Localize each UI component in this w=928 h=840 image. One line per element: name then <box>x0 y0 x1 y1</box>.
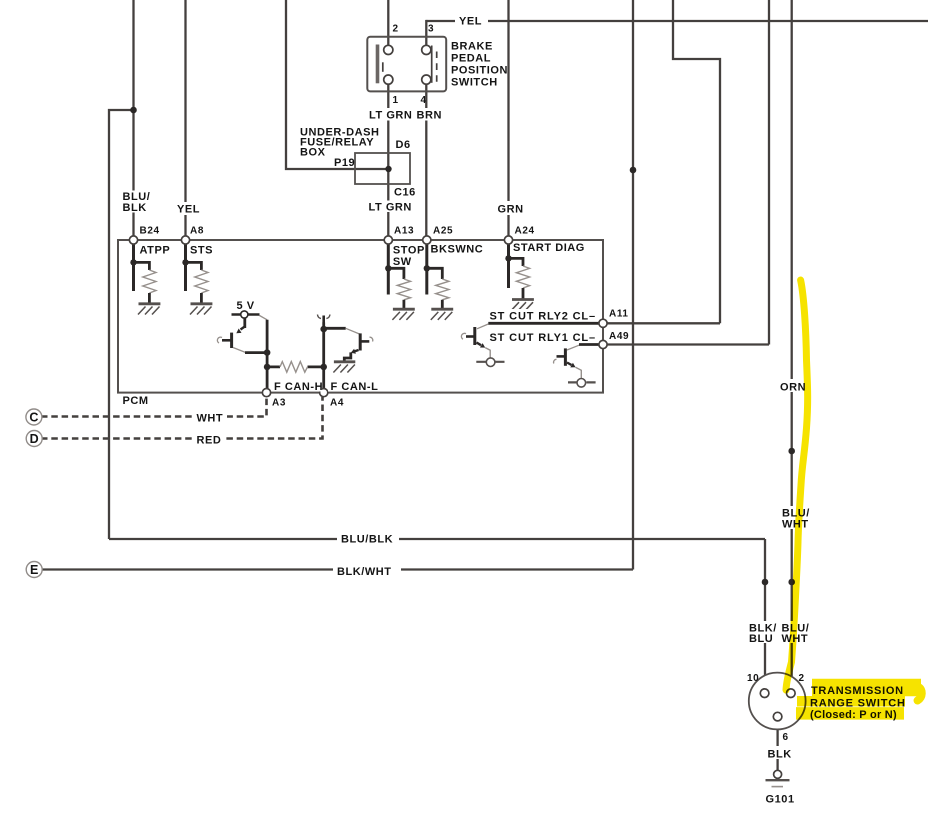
highlighter mark over ORN/BLU-WHT wire <box>786 280 808 690</box>
svg-text:BLU: BLU <box>749 633 773 645</box>
connector D dashed wire RED <box>41 397 323 439</box>
svg-text:5 V: 5 V <box>237 300 255 312</box>
svg-text:LT GRN: LT GRN <box>369 110 412 122</box>
splice on ORN wire <box>788 448 795 455</box>
svg-text:B24: B24 <box>140 226 160 237</box>
highlighter mark over TRANSMISSION RANGE SWITCH label <box>796 687 922 713</box>
PCM terminal A4 <box>320 389 328 397</box>
resistor STOP SW <box>385 243 410 309</box>
connector C <box>26 409 42 425</box>
svg-text:A4: A4 <box>330 398 344 409</box>
svg-text:ORN: ORN <box>780 382 806 394</box>
svg-text:ST CUT RLY1 CL–: ST CUT RLY1 CL– <box>490 332 596 344</box>
transistor ST CUT RLY2 <box>461 324 490 359</box>
resistor BKSWNC <box>424 243 449 309</box>
label RED <box>193 432 225 447</box>
svg-text:D: D <box>30 432 39 446</box>
label BLU/BLK bus <box>337 530 399 546</box>
wire BRN pin 4 to A25 <box>425 84 427 236</box>
wire BLU/BLK horizontal bus <box>109 538 765 540</box>
svg-text:START DIAG: START DIAG <box>513 242 585 254</box>
svg-text:2: 2 <box>799 673 805 684</box>
resistor START DIAG <box>505 243 529 300</box>
resistor CAN termination <box>267 362 324 373</box>
PCM terminal A8 <box>181 236 189 244</box>
svg-text:ATPP: ATPP <box>140 245 171 257</box>
wire GRN vertical to A24 <box>507 0 509 236</box>
wire F CAN-H vertical <box>264 320 271 393</box>
transistor ST CUT RLY1 <box>554 345 582 379</box>
svg-text:A3: A3 <box>272 398 286 409</box>
wire ST CUT RLY2 CL to A11 <box>488 322 603 325</box>
svg-text:1: 1 <box>393 95 399 106</box>
svg-text:BLK: BLK <box>123 202 147 214</box>
ground (circle type) for RLY1 <box>568 379 596 388</box>
svg-text:F CAN-L: F CAN-L <box>331 381 379 393</box>
ground for ATPP <box>138 304 160 315</box>
node on BLK/WHT wire <box>630 167 637 174</box>
wire A11 horizontal <box>607 322 720 324</box>
svg-text:SW: SW <box>393 256 412 268</box>
switch contact pin3-pin4 <box>431 46 433 83</box>
label ST CUT RLY1 CL <box>487 331 599 344</box>
wire ORN / BLU WHT to pin 2 <box>791 0 793 688</box>
svg-text:C16: C16 <box>394 187 416 199</box>
svg-text:A13: A13 <box>394 226 414 237</box>
connector D <box>26 431 42 447</box>
wire YEL vertical to A8 <box>184 0 186 236</box>
CAN-L top terminal symbol <box>317 315 329 324</box>
svg-text:PCM: PCM <box>123 395 149 407</box>
svg-text:LT GRN: LT GRN <box>369 202 412 214</box>
splice on BLK/BLU wire <box>762 579 769 586</box>
switch plunger bar <box>376 45 380 84</box>
ground for STOP SW <box>392 309 414 320</box>
wire A49 horizontal <box>607 343 769 345</box>
label WHT <box>193 410 227 425</box>
label F CAN-H <box>272 380 323 393</box>
pin 1 circle <box>384 75 393 84</box>
label ORN <box>777 379 810 394</box>
ground for STS <box>190 304 212 315</box>
ground (circle type) for RLY2 <box>476 358 504 367</box>
svg-text:3: 3 <box>428 24 434 35</box>
svg-text:PEDAL: PEDAL <box>451 53 491 65</box>
PCM terminal A49 <box>599 340 607 348</box>
label YEL top (on wire) <box>455 13 488 28</box>
PCM terminal A11 <box>599 319 607 327</box>
svg-text:BRAKE: BRAKE <box>451 41 493 53</box>
PCM terminal A24 <box>504 236 512 244</box>
label ST CUT RLY2 CL <box>487 309 599 322</box>
svg-text:BRN: BRN <box>417 110 442 122</box>
label BLK/BLU <box>746 621 777 645</box>
label GRN wire <box>494 201 527 216</box>
svg-text:GRN: GRN <box>498 204 524 216</box>
label F CAN-L <box>328 380 378 393</box>
svg-text:BLK: BLK <box>768 749 792 761</box>
wire BLK/WHT vertical from top <box>632 0 634 570</box>
svg-text:E: E <box>30 563 38 577</box>
label LT GRN BRN <box>367 108 442 122</box>
wire BLK pin 6 to G101 <box>776 721 778 771</box>
switch linkage dashes <box>382 62 384 72</box>
wire branch to BLU/BLK bus <box>109 110 134 539</box>
resistor STS <box>182 243 208 304</box>
wire F CAN-L vertical <box>320 323 327 393</box>
label BLU/BLK vertical wire <box>120 191 150 214</box>
pin 10 circle <box>760 689 769 698</box>
svg-text:STS: STS <box>190 245 213 257</box>
splice on BLU/WHT wire <box>788 579 795 586</box>
svg-text:A25: A25 <box>433 226 453 237</box>
svg-text:A24: A24 <box>515 226 535 237</box>
svg-text:BKSWNC: BKSWNC <box>431 244 484 256</box>
ground for START DIAG <box>512 300 534 311</box>
pin 6 circle <box>773 712 782 721</box>
wire BLU/BLK vertical to B24 <box>132 0 134 236</box>
svg-text:WHT: WHT <box>197 413 224 425</box>
svg-text:A49: A49 <box>609 331 629 342</box>
ground for CAN-L driver <box>333 362 355 373</box>
svg-text:BLK/WHT: BLK/WHT <box>337 566 392 578</box>
svg-text:YEL: YEL <box>177 204 200 216</box>
label BLU/WHT lower <box>778 621 812 645</box>
svg-text:2: 2 <box>393 24 399 35</box>
pin 3 circle <box>422 45 431 54</box>
node on BLU/BLK wire <box>130 107 137 114</box>
wire A11 jog at top <box>673 0 720 323</box>
pin 2 circle <box>384 45 393 54</box>
PCM terminal B24 <box>129 236 137 244</box>
connector C dashed wire WHT <box>41 397 267 417</box>
label BLK/WHT bus <box>333 563 401 579</box>
ground G101 <box>766 770 790 786</box>
svg-text:RED: RED <box>197 435 222 447</box>
transistor CAN-L driver <box>324 328 373 361</box>
pin 2 circle <box>787 689 796 698</box>
PCM box <box>118 240 603 393</box>
svg-text:F CAN-H: F CAN-H <box>274 381 323 393</box>
svg-text:POSITION: POSITION <box>451 65 508 77</box>
svg-text:P19: P19 <box>334 157 355 169</box>
wire BLK/BLU drop to pin 10 <box>764 539 766 688</box>
wire E BLK/WHT horizontal <box>41 568 633 570</box>
svg-text:C: C <box>29 411 38 425</box>
wire YEL horizontal <box>426 20 928 22</box>
svg-text:A11: A11 <box>609 309 629 320</box>
wire LT GRN pin1 to A13 through P19 <box>387 84 389 236</box>
svg-text:G101: G101 <box>766 794 795 806</box>
svg-text:SWITCH: SWITCH <box>451 77 498 89</box>
pin 4 circle <box>422 75 431 84</box>
transistor CAN-H driver <box>217 316 267 353</box>
wire A49 vertical <box>768 0 770 345</box>
svg-text:BLU/BLK: BLU/BLK <box>341 534 393 546</box>
svg-text:STOP: STOP <box>393 245 425 257</box>
ground for BKSWNC <box>431 309 453 320</box>
wire pin 2 brake switch <box>387 0 389 45</box>
wire ST CUT RLY1 CL to A49 <box>579 343 603 346</box>
label YEL wire <box>174 202 201 216</box>
under-dash fuse/relay box P19/D6/C16 <box>355 153 410 184</box>
svg-text:YEL: YEL <box>459 16 482 28</box>
PCM terminal A3 <box>262 389 270 397</box>
svg-text:6: 6 <box>783 732 789 743</box>
wire pin 3 to YEL line <box>425 20 427 46</box>
svg-text:A8: A8 <box>190 226 204 237</box>
PCM terminal A13 <box>384 236 392 244</box>
svg-text:10: 10 <box>747 673 759 684</box>
transmission range switch <box>749 673 806 730</box>
label LT GRN lower <box>366 201 412 214</box>
svg-text:ST CUT RLY2 CL–: ST CUT RLY2 CL– <box>490 310 596 322</box>
svg-text:BOX: BOX <box>300 147 326 159</box>
resistor ATPP <box>130 243 156 304</box>
svg-text:4: 4 <box>421 95 427 106</box>
label BLK <box>764 746 794 761</box>
brake pedal position switch box <box>367 37 446 92</box>
svg-text:D6: D6 <box>396 139 411 151</box>
PCM terminal A25 <box>423 236 431 244</box>
wire into P19 from left <box>286 0 389 169</box>
connector E <box>26 562 42 578</box>
5V supply symbol <box>232 311 260 318</box>
label BLU/WHT mid <box>779 506 812 530</box>
